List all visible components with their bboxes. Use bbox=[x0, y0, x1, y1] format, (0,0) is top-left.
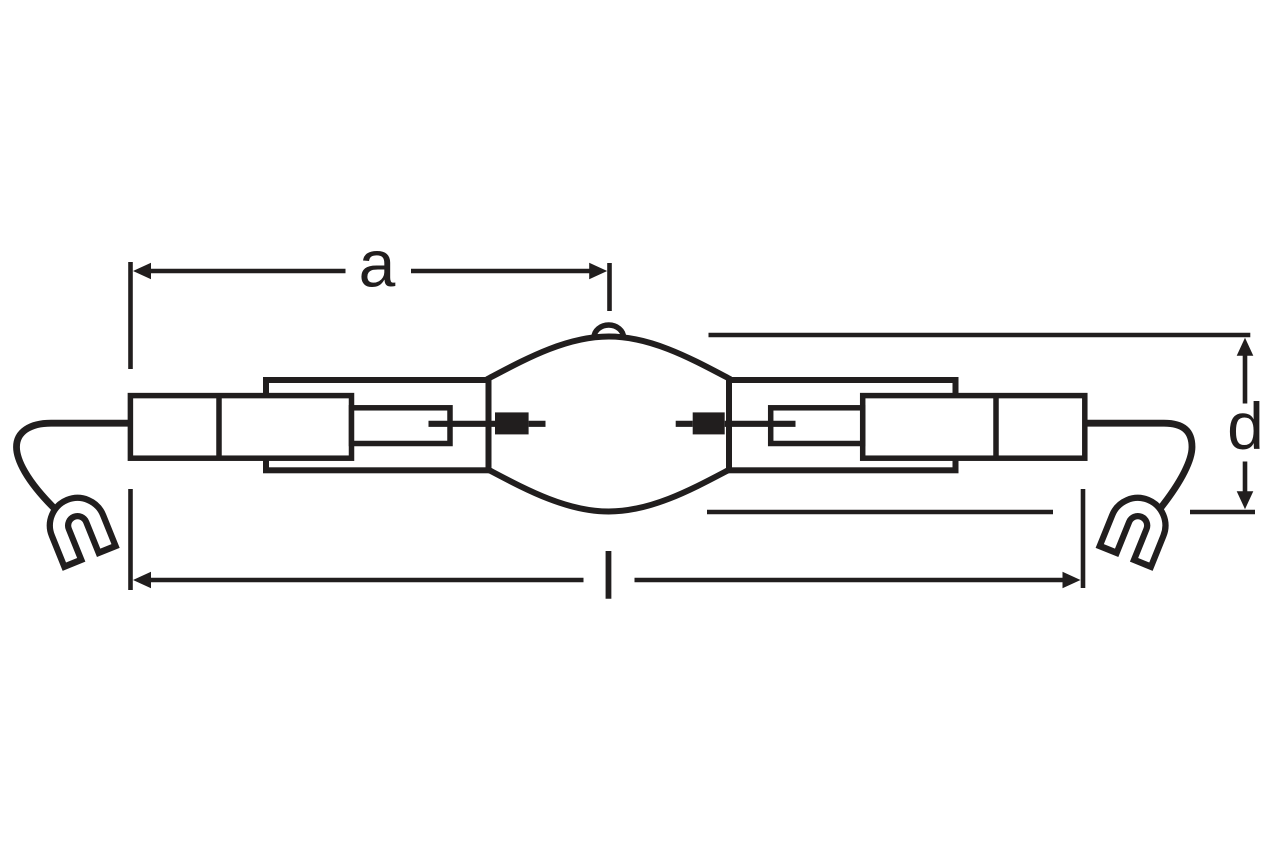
dimension d: bottom extension line right segment bbox=[1190, 510, 1255, 515]
dimension l: line right segment bbox=[635, 578, 1065, 583]
wire: right cable lead bbox=[1085, 423, 1192, 510]
dimension d: down arrow bbox=[1237, 491, 1254, 509]
wire: right electrode tip bbox=[676, 421, 693, 427]
svg-text:l: l bbox=[601, 539, 616, 613]
dimension d: lower shaft bbox=[1243, 462, 1248, 493]
left cable lug (fork terminal) bbox=[53, 501, 108, 566]
bulb (arc tube envelope) bbox=[489, 337, 730, 512]
dimension d: upper shaft bbox=[1243, 355, 1248, 404]
svg-text:a: a bbox=[359, 227, 396, 301]
right base divider bbox=[993, 396, 999, 459]
dimension l: line left segment bbox=[150, 578, 584, 583]
wire: left electrode tip bbox=[529, 421, 546, 427]
left base divider bbox=[216, 396, 222, 459]
wire: right electrode lead bbox=[725, 421, 796, 427]
dimension a: right arrow bbox=[589, 263, 607, 280]
dimension a: line left segment bbox=[150, 269, 346, 274]
right electrode (black block) bbox=[693, 412, 725, 434]
dimension d: up arrow bbox=[1237, 338, 1254, 356]
dimension a: right extension line bbox=[607, 263, 612, 311]
right outer sleeve tube bbox=[729, 380, 956, 470]
left base cylinder bbox=[130, 396, 351, 459]
wire: left electrode lead bbox=[429, 421, 496, 427]
dimension a: left arrow bbox=[133, 263, 151, 280]
dimension a: line right segment bbox=[411, 269, 590, 274]
left outer sleeve tube bbox=[266, 380, 489, 470]
right cable lug (fork terminal) bbox=[1107, 501, 1162, 566]
left inner seal tube bbox=[352, 408, 451, 444]
left electrode (black block) bbox=[495, 412, 529, 434]
dimension a: left extension line bbox=[128, 262, 133, 369]
dimension d: top extension line bbox=[709, 333, 1251, 338]
dimension d: bottom extension line left segment bbox=[707, 510, 1053, 515]
wire: left cable lead bbox=[17, 423, 132, 510]
nipple (pip) on bulb top bbox=[594, 325, 624, 338]
right inner seal tube bbox=[771, 408, 863, 444]
dimension l: right extension line bbox=[1081, 489, 1086, 588]
dimension l: left extension line bbox=[128, 489, 133, 590]
right base cylinder bbox=[863, 396, 1085, 459]
dimension l: left arrow bbox=[133, 572, 151, 589]
dimension l: right arrow bbox=[1063, 572, 1081, 589]
svg-text:d: d bbox=[1227, 389, 1264, 463]
